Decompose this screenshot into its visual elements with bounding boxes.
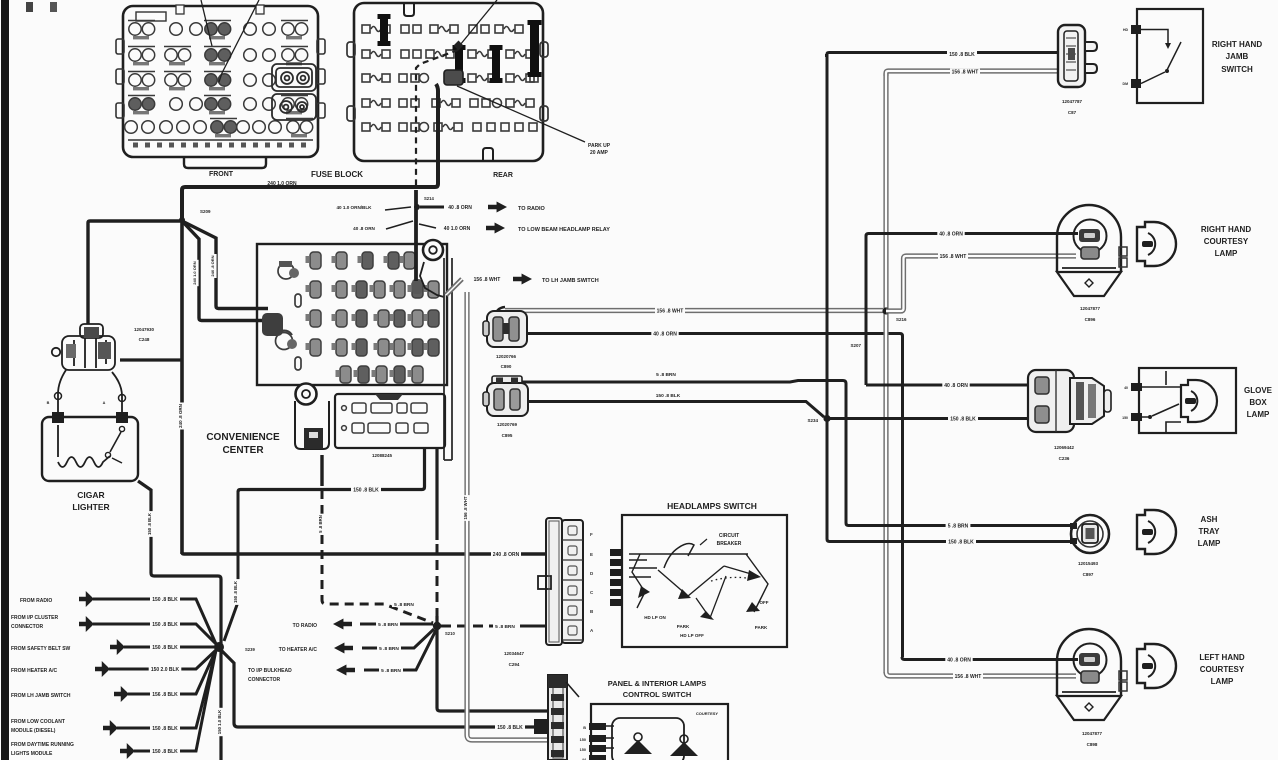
connector C87 RH jamb bbox=[1058, 25, 1085, 87]
svg-text:5 .8 BRN: 5 .8 BRN bbox=[495, 624, 515, 630]
svg-text:LIGHTS MODULE: LIGHTS MODULE bbox=[11, 751, 53, 757]
wire feed into convenience center bbox=[414, 190, 418, 281]
svg-text:FROM SAFETY BELT SW: FROM SAFETY BELT SW bbox=[11, 646, 71, 652]
wire 156 WHT to LH courtesy lamp bbox=[886, 672, 1076, 676]
svg-text:LAMP: LAMP bbox=[1247, 410, 1270, 419]
svg-text:5 .8 BRN: 5 .8 BRN bbox=[379, 646, 399, 652]
wire 5 BRN to radio bbox=[360, 623, 433, 626]
glove box lamp box bbox=[1139, 368, 1236, 433]
svg-text:TO I/P BULKHEAD: TO I/P BULKHEAD bbox=[248, 668, 292, 674]
spider wire 150 .8 BLK y=647 bbox=[124, 646, 216, 649]
wire 150 BLK convenience center horizontal bbox=[238, 448, 425, 492]
svg-text:FROM DAYTIME RUNNING: FROM DAYTIME RUNNING bbox=[11, 742, 74, 748]
svg-text:CONVENIENCE: CONVENIENCE bbox=[206, 432, 280, 443]
wire 150 BLK from C895 bbox=[527, 402, 824, 418]
svg-text:C87: C87 bbox=[1068, 110, 1077, 115]
svg-text:S216: S216 bbox=[896, 317, 907, 322]
glove box lamp terminals bbox=[1131, 383, 1142, 391]
svg-text:240 1.0 ORN: 240 1.0 ORN bbox=[267, 181, 297, 187]
RH jamb switch box bbox=[1137, 9, 1203, 103]
wire 150 BLK from cigar lighter bbox=[138, 481, 221, 760]
svg-text:RIGHT HAND: RIGHT HAND bbox=[1212, 40, 1262, 49]
panel switch lamp symbols bbox=[634, 733, 642, 741]
svg-text:BREAKER: BREAKER bbox=[717, 541, 742, 547]
svg-text:C236: C236 bbox=[1059, 456, 1070, 461]
wire 150 BLK node to panel switch bbox=[221, 650, 534, 727]
svg-text:TO RADIO: TO RADIO bbox=[293, 623, 317, 629]
svg-text:150 .8 BLK: 150 .8 BLK bbox=[656, 393, 681, 399]
svg-text:B: B bbox=[47, 401, 50, 405]
svg-text:40 .8 ORN: 40 .8 ORN bbox=[947, 657, 971, 663]
fuse block FRONT fuse cavities bbox=[125, 21, 313, 138]
spider wire 150 2.0 BLK y=669 bbox=[109, 650, 216, 669]
convenience center interior fuses bbox=[306, 252, 440, 383]
svg-text:156 .8 WHT: 156 .8 WHT bbox=[474, 277, 501, 283]
svg-text:150 .8 BLK: 150 .8 BLK bbox=[152, 726, 178, 732]
connector C87 pins bbox=[1085, 42, 1097, 51]
svg-text:12020769: 12020769 bbox=[497, 422, 518, 427]
svg-text:TO HEATER A/C: TO HEATER A/C bbox=[279, 647, 318, 653]
svg-text:CONNECTOR: CONNECTOR bbox=[11, 624, 44, 630]
svg-text:150 1.0 BLK: 150 1.0 BLK bbox=[217, 709, 222, 734]
svg-text:LAMP: LAMP bbox=[1198, 539, 1221, 548]
panel switch connector bbox=[548, 675, 567, 760]
svg-text:156 .8 WHT: 156 .8 WHT bbox=[940, 254, 967, 260]
svg-text:150 .8 BLK: 150 .8 BLK bbox=[353, 487, 379, 493]
svg-text:PARK: PARK bbox=[755, 625, 768, 630]
svg-text:OFF: OFF bbox=[760, 600, 769, 605]
svg-text:LEFT HAND: LEFT HAND bbox=[1199, 653, 1245, 662]
svg-text:COURTESY: COURTESY bbox=[1204, 237, 1249, 246]
svg-text:LAMP: LAMP bbox=[1211, 677, 1234, 686]
svg-text:150 .8 BLK: 150 .8 BLK bbox=[949, 52, 975, 58]
LH courtesy lamp bulb symbol bbox=[1137, 644, 1176, 688]
RH courtesy lamp bulb symbol bbox=[1137, 222, 1176, 266]
convenience center left symbols bbox=[276, 261, 302, 370]
fuse block REAR heavy fuses bbox=[378, 14, 391, 46]
wire 156 WHT vertical to panel switch bbox=[467, 292, 548, 740]
svg-text:FUSE BLOCK: FUSE BLOCK bbox=[311, 170, 363, 179]
fuse block FRONT side tabs bbox=[116, 39, 124, 54]
svg-text:150: 150 bbox=[580, 748, 586, 752]
convenience center body bbox=[257, 244, 447, 385]
svg-text:B: B bbox=[583, 726, 586, 730]
ash tray lamp bulb bbox=[1137, 510, 1176, 554]
wire 40 ORN to radio bbox=[420, 206, 444, 209]
svg-text:12020766: 12020766 bbox=[496, 354, 517, 359]
cigar lighter body bbox=[42, 417, 138, 481]
svg-text:S209: S209 bbox=[200, 209, 211, 214]
svg-text:HD LP ON: HD LP ON bbox=[644, 615, 665, 620]
svg-text:240 .8 ORN: 240 .8 ORN bbox=[178, 404, 183, 428]
RH jamb switch terminals bbox=[1131, 25, 1141, 34]
svg-text:C890: C890 bbox=[501, 364, 512, 369]
wire 156 WHT to LH jamb switch bbox=[446, 279, 462, 295]
connector C890 bbox=[483, 311, 527, 347]
svg-text:CIRCUIT: CIRCUIT bbox=[719, 533, 739, 539]
cigar lighter heater coil bbox=[58, 425, 110, 467]
svg-text:40 .8 ORN: 40 .8 ORN bbox=[353, 226, 375, 231]
cigar lighter feed wire bbox=[88, 221, 182, 324]
svg-text:12047877: 12047877 bbox=[1080, 306, 1101, 311]
spider wire 150 .8 BLK y=751 bbox=[134, 650, 216, 751]
svg-text:PARK: PARK bbox=[677, 624, 690, 629]
splice S209 bbox=[179, 217, 185, 223]
svg-text:150 .8 BLK: 150 .8 BLK bbox=[152, 597, 178, 603]
connector C236 glove box bbox=[1028, 370, 1111, 432]
wire 40 ORN to glove box lamp bbox=[866, 384, 1028, 387]
svg-text:156 .8 WHT: 156 .8 WHT bbox=[955, 674, 982, 680]
svg-text:156 .8 WHT: 156 .8 WHT bbox=[952, 69, 979, 75]
splice S216 bbox=[882, 307, 889, 314]
svg-text:HEADLAMPS SWITCH: HEADLAMPS SWITCH bbox=[667, 501, 757, 511]
svg-text:S234: S234 bbox=[807, 418, 818, 423]
svg-text:S239: S239 bbox=[245, 647, 255, 652]
svg-text:240 .8 ORN: 240 .8 ORN bbox=[493, 552, 520, 558]
glove box lamp switch bbox=[1148, 415, 1152, 419]
svg-text:C294: C294 bbox=[509, 662, 520, 667]
svg-text:PANEL & INTERIOR LAMPS: PANEL & INTERIOR LAMPS bbox=[608, 679, 706, 688]
svg-text:12069442: 12069442 bbox=[1054, 445, 1075, 450]
svg-text:150 .8 BLK: 150 .8 BLK bbox=[950, 416, 976, 422]
svg-text:40 1.0 ORN/BLK: 40 1.0 ORN/BLK bbox=[337, 205, 373, 210]
svg-text:CONNECTOR: CONNECTOR bbox=[248, 677, 281, 683]
splice node S239 bbox=[214, 642, 224, 652]
fuse block FRONT bottom hatch strip bbox=[128, 139, 313, 141]
convenience center right bracket bbox=[420, 262, 444, 297]
fuse block REAR fuse symbols bbox=[362, 25, 538, 132]
svg-text:150 .8 BLK: 150 .8 BLK bbox=[497, 725, 523, 731]
panel switch terminals bbox=[589, 723, 606, 730]
connector C895 bbox=[483, 376, 528, 416]
headlamps switch box bbox=[622, 515, 787, 647]
splice S234 and wire 150 BLK to glove box lamp bbox=[823, 415, 830, 422]
svg-text:FRONT: FRONT bbox=[209, 171, 234, 178]
svg-text:156 .8 BLK: 156 .8 BLK bbox=[152, 692, 178, 698]
glove box lamp bulb bbox=[1181, 380, 1217, 422]
svg-text:40: 40 bbox=[1124, 386, 1128, 390]
svg-text:150 .8 BLK: 150 .8 BLK bbox=[152, 645, 178, 651]
wire 156 WHT RH jamb horizontal bbox=[886, 71, 1058, 76]
svg-text:LAMP: LAMP bbox=[1215, 249, 1238, 258]
svg-text:CONTROL SWITCH: CONTROL SWITCH bbox=[623, 690, 692, 699]
RH jamb switch contacts bbox=[1141, 30, 1168, 44]
svg-text:12047787: 12047787 bbox=[1062, 99, 1083, 104]
fuse block FRONT bottom tab bbox=[184, 157, 266, 168]
svg-text:150 .8 BLK: 150 .8 BLK bbox=[233, 580, 238, 603]
wire 150 BLK jamb switch vertical bbox=[826, 56, 829, 540]
cigar lighter connector C248 bbox=[52, 324, 115, 370]
fuse block REAR body bbox=[354, 3, 543, 161]
svg-text:CIGAR: CIGAR bbox=[77, 490, 104, 500]
svg-text:FROM RADIO: FROM RADIO bbox=[20, 598, 52, 604]
label 240 1.0 ORN vertical bbox=[193, 260, 198, 286]
wire 150 BLK conv center to panel switch bbox=[435, 448, 438, 540]
spider wire 156 .8 BLK y=694 bbox=[128, 650, 216, 694]
svg-text:156 .8 WHT: 156 .8 WHT bbox=[657, 308, 684, 314]
svg-text:E: E bbox=[590, 552, 593, 557]
wire 5 BRN to IP bulkhead connector bbox=[364, 630, 436, 670]
svg-text:FROM LH JAMB SWITCH: FROM LH JAMB SWITCH bbox=[11, 693, 71, 699]
svg-text:150 .8 BLK: 150 .8 BLK bbox=[152, 622, 178, 628]
svg-text:REAR: REAR bbox=[493, 172, 513, 179]
svg-text:12015493: 12015493 bbox=[1078, 561, 1099, 566]
svg-text:TO LH JAMB SWITCH: TO LH JAMB SWITCH bbox=[542, 278, 599, 284]
svg-text:40 .8 ORN: 40 .8 ORN bbox=[448, 205, 472, 211]
wire 40 ORN from C890 bbox=[527, 334, 903, 658]
svg-text:A: A bbox=[103, 401, 106, 405]
svg-text:F: F bbox=[590, 532, 593, 537]
cigar lighter switch contact bbox=[119, 426, 124, 431]
svg-text:TRAY: TRAY bbox=[1198, 527, 1220, 536]
cigar lighter branch wire bbox=[120, 358, 182, 361]
wire 240 ORN main vertical bbox=[180, 220, 184, 554]
svg-text:12047930: 12047930 bbox=[134, 327, 155, 332]
svg-text:SWITCH: SWITCH bbox=[1221, 65, 1253, 74]
cigar lighter leads bbox=[58, 370, 66, 413]
wire to splice S214 bbox=[414, 204, 420, 210]
label 150 1.0 BLK vertical bbox=[218, 708, 224, 736]
svg-text:BOX: BOX bbox=[1249, 398, 1267, 407]
svg-text:5 .8 BRN: 5 .8 BRN bbox=[318, 515, 323, 533]
fuse block FRONT leader lines bbox=[201, 0, 212, 46]
svg-text:RIGHT HAND: RIGHT HAND bbox=[1201, 225, 1251, 234]
splice S210 bbox=[433, 622, 441, 630]
spider wire 150 .8 BLK y=728 bbox=[117, 650, 216, 728]
svg-text:12047877: 12047877 bbox=[1082, 731, 1103, 736]
svg-text:40 .8 ORN: 40 .8 ORN bbox=[939, 231, 963, 237]
headlamps switch terminals bbox=[610, 549, 623, 556]
svg-text:FROM LOW COOLANT: FROM LOW COOLANT bbox=[11, 719, 65, 725]
svg-text:DM: DM bbox=[1123, 82, 1129, 86]
spider wire 150 .8 BLK y=599 bbox=[93, 599, 216, 644]
wire 5 BRN from bracket dashed bbox=[320, 455, 323, 486]
wire 5 BRN to ash tray lamp bbox=[846, 521, 1072, 526]
svg-text:C896: C896 bbox=[1085, 317, 1096, 322]
svg-text:LIGHTER: LIGHTER bbox=[72, 502, 109, 512]
convenience center bottom-left bracket bbox=[295, 401, 329, 449]
svg-text:MODULE (DIESEL): MODULE (DIESEL) bbox=[11, 728, 56, 734]
wire 5 BRN to heater AC bbox=[362, 629, 434, 648]
wire 40 ORN to RH courtesy lamp bbox=[866, 234, 1078, 386]
svg-text:TO LOW BEAM HEADLAMP RELAY: TO LOW BEAM HEADLAMP RELAY bbox=[518, 227, 610, 233]
svg-text:S210: S210 bbox=[445, 631, 455, 636]
svg-text:150 2.0 BLK: 150 2.0 BLK bbox=[151, 667, 180, 673]
svg-text:5 .8 BRN: 5 .8 BRN bbox=[381, 668, 401, 674]
svg-text:40 .8 ORN: 40 .8 ORN bbox=[653, 331, 677, 337]
panel switch box bbox=[591, 704, 728, 760]
svg-text:5 .8 BRN: 5 .8 BRN bbox=[394, 602, 414, 608]
svg-text:COURTESY: COURTESY bbox=[696, 711, 719, 716]
wire 240 ORN branch to convenience center upper bbox=[182, 221, 268, 309]
svg-text:HD LP OFF: HD LP OFF bbox=[680, 633, 704, 638]
wire 150 BLK RH jamb horizontal bbox=[825, 53, 1059, 58]
wire 150 BLK to ash tray lamp bbox=[827, 539, 1075, 542]
svg-text:JAMB: JAMB bbox=[1226, 52, 1249, 61]
wire 240 ORN fuse block feed bbox=[182, 84, 438, 219]
svg-text:240 .8 ORN: 240 .8 ORN bbox=[210, 255, 215, 276]
wire 5 BRN S210 to C294 bbox=[441, 625, 520, 628]
svg-text:156 .8 WHT: 156 .8 WHT bbox=[463, 496, 468, 519]
wire 156 WHT to RH courtesy lamp bbox=[886, 256, 1076, 311]
RH courtesy lamp socket bbox=[1057, 205, 1121, 272]
svg-text:GLOVE: GLOVE bbox=[1244, 386, 1273, 395]
wire 240 ORN branch to convenience center lower bbox=[182, 221, 268, 321]
svg-text:FROM I/P CLUSTER: FROM I/P CLUSTER bbox=[11, 615, 59, 621]
svg-text:ASH: ASH bbox=[1201, 515, 1218, 524]
svg-text:12088245: 12088245 bbox=[372, 453, 393, 458]
svg-text:C248: C248 bbox=[139, 337, 150, 342]
ash tray lamp socket C897 bbox=[1071, 515, 1109, 553]
svg-text:CENTER: CENTER bbox=[222, 445, 264, 456]
svg-text:40 .8 ORN: 40 .8 ORN bbox=[944, 383, 968, 389]
svg-text:240 1.0 ORN: 240 1.0 ORN bbox=[192, 261, 197, 284]
svg-text:COURTESY: COURTESY bbox=[1200, 665, 1245, 674]
svg-text:C898: C898 bbox=[1087, 742, 1098, 747]
wire 156 WHT from C890 bbox=[505, 308, 883, 313]
spider wire 150 .8 BLK y=624 bbox=[93, 624, 216, 644]
svg-text:150 .8 BLK: 150 .8 BLK bbox=[152, 749, 178, 755]
fuse block REAR dashed circuit path bbox=[416, 50, 458, 186]
convenience center fuse pill at feed bbox=[412, 279, 422, 294]
convenience center bottom-left mounting hole bbox=[296, 384, 317, 405]
cigar lighter terminals bbox=[52, 412, 64, 423]
svg-text:150 .8 BLK: 150 .8 BLK bbox=[948, 539, 974, 545]
fuse block REAR side tabs bbox=[347, 42, 355, 57]
convenience center lower box bbox=[335, 394, 445, 448]
fuse block REAR park lamp leader bbox=[460, 0, 497, 45]
wire 156 WHT jamb vertical bbox=[883, 74, 888, 674]
svg-text:HD: HD bbox=[1123, 28, 1129, 32]
svg-text:C895: C895 bbox=[502, 433, 513, 438]
svg-text:TO RADIO: TO RADIO bbox=[518, 206, 546, 212]
connector C294 bbox=[546, 518, 583, 645]
fuse block FRONT body bbox=[123, 6, 318, 157]
page left border bar bbox=[1, 0, 9, 760]
svg-text:5 .8 BRN: 5 .8 BRN bbox=[656, 372, 676, 378]
label 240 .8 ORN vertical bbox=[211, 254, 216, 278]
svg-text:S207: S207 bbox=[850, 343, 861, 348]
svg-text:PARK UP: PARK UP bbox=[588, 143, 611, 149]
svg-text:5 .8 BRN: 5 .8 BRN bbox=[378, 622, 398, 628]
svg-text:5 .8 BRN: 5 .8 BRN bbox=[948, 523, 969, 529]
wire 240 ORN to C294 bbox=[182, 552, 547, 554]
svg-text:12034647: 12034647 bbox=[504, 651, 525, 656]
convenience center top-right mounting hole bbox=[423, 240, 443, 260]
wire 150 BLK down to node bbox=[224, 492, 238, 641]
wire 40 ORN to LH courtesy lamp bbox=[902, 657, 1078, 660]
wire 5 BRN from C895 bbox=[522, 381, 846, 524]
LH courtesy lamp socket bbox=[1057, 629, 1121, 696]
svg-text:FROM HEATER A/C: FROM HEATER A/C bbox=[11, 668, 57, 674]
svg-text:S214: S214 bbox=[424, 196, 434, 201]
fuse block FRONT relay sockets bbox=[272, 64, 316, 120]
svg-text:150: 150 bbox=[580, 738, 586, 742]
headlamps switch internal mechanism bbox=[629, 553, 748, 555]
svg-text:150: 150 bbox=[1122, 416, 1128, 420]
svg-text:C897: C897 bbox=[1083, 572, 1094, 577]
svg-text:20 AMP: 20 AMP bbox=[590, 150, 609, 156]
svg-text:150 .8 BLK: 150 .8 BLK bbox=[147, 512, 152, 535]
svg-text:40 1.0 ORN: 40 1.0 ORN bbox=[444, 226, 471, 232]
